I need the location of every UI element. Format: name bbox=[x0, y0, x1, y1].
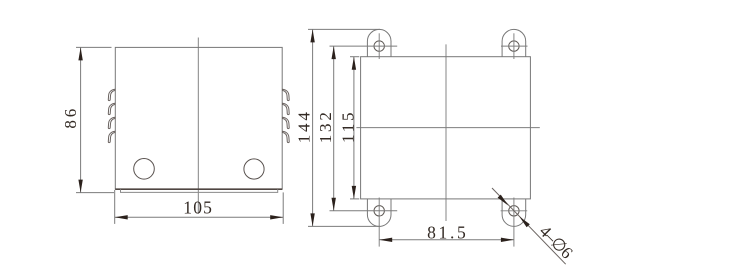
node louver R1 bbox=[283, 89, 290, 100]
enclosure body right view bbox=[361, 57, 531, 199]
node hole bottom-left bbox=[374, 206, 384, 216]
wire hole BR horizontal crosshair bbox=[501, 210, 528, 212]
wire hole BR vertical crosshair extended bbox=[513, 198, 515, 247]
node tab bottom-left bbox=[367, 199, 391, 227]
svg-text:132: 132 bbox=[316, 109, 335, 143]
arrow dim86 bottom bbox=[78, 180, 82, 193]
svg-text:115: 115 bbox=[339, 110, 358, 143]
wire dim86 extension top bbox=[76, 46, 112, 48]
arrow leader lower (points up-left at hole) bbox=[518, 215, 530, 227]
arrow dim132 bottom bbox=[332, 198, 336, 211]
svg-text:105: 105 bbox=[183, 197, 213, 217]
node tab bottom-right bbox=[502, 199, 526, 227]
arrow dim86 top bbox=[78, 47, 82, 60]
arrow dim115 bottom bbox=[352, 186, 356, 199]
wire dim115 line bbox=[353, 57, 355, 199]
node tab top-left bbox=[367, 29, 391, 56]
wire dim86 line bbox=[80, 47, 82, 192]
wire leader 4-d6 bbox=[492, 188, 566, 264]
wire hole TR horizontal crosshair bbox=[501, 45, 528, 47]
wire dim81.5 line bbox=[379, 239, 514, 241]
wire dim105 extension left bbox=[114, 190, 116, 224]
arrow dim105 right bbox=[270, 215, 283, 219]
wire bottom edge thick bbox=[115, 188, 282, 190]
node hole right circle bbox=[244, 159, 264, 179]
svg-text:144: 144 bbox=[295, 109, 314, 143]
svg-text:86: 86 bbox=[61, 106, 80, 129]
node hole bottom-right bbox=[509, 206, 519, 216]
wire hole BL vertical crosshair extended bbox=[378, 198, 380, 247]
node louver L1 bbox=[108, 89, 115, 100]
arrow leader upper (points down-right at hole) bbox=[498, 195, 510, 207]
wire dim144 extension bottom bbox=[308, 225, 380, 227]
svg-text:4–∅6: 4–∅6 bbox=[536, 222, 577, 263]
node louver R3 bbox=[283, 117, 290, 128]
node hole left circle bbox=[134, 159, 155, 180]
wire dim105 line bbox=[115, 216, 284, 218]
enclosure body left view bbox=[115, 47, 282, 189]
node louver L2 bbox=[108, 103, 115, 114]
node louver L3 bbox=[108, 117, 115, 128]
arrow dim144 bottom bbox=[310, 213, 314, 226]
node louver R2 bbox=[283, 103, 290, 114]
wire centerline vertical right view bbox=[445, 44, 447, 221]
svg-text:81.5: 81.5 bbox=[427, 223, 468, 243]
arrow dim115 top bbox=[352, 57, 356, 70]
arrow dim144 top bbox=[310, 29, 314, 42]
wire hole TR vertical crosshair bbox=[513, 33, 515, 59]
wire centerline horizontal right view bbox=[356, 127, 539, 129]
wire dim132 line bbox=[333, 46, 335, 211]
wire dim144 line bbox=[312, 29, 314, 226]
node hole top-left bbox=[374, 41, 384, 51]
node hole top-right bbox=[509, 41, 519, 51]
arrow dim81.5 left bbox=[379, 238, 392, 242]
wire dim132 extension top bbox=[330, 45, 398, 47]
arrow dim132 top bbox=[332, 46, 336, 59]
node louver L4 bbox=[108, 131, 115, 142]
wire centerline vertical left view bbox=[197, 38, 199, 214]
node tab top-right bbox=[502, 29, 526, 56]
wire dim115 extension top bbox=[350, 56, 359, 58]
arrow dim81.5 right bbox=[501, 238, 514, 242]
wire dim105 extension right bbox=[282, 192, 284, 224]
node louver R4 bbox=[283, 131, 290, 142]
wire dim86 extension bottom bbox=[76, 192, 114, 194]
wire dim144 extension top bbox=[308, 28, 380, 30]
wire dim115 extension bottom bbox=[350, 198, 359, 200]
wire dim132 extension bottom bbox=[330, 210, 398, 212]
wire hole TL vertical crosshair bbox=[378, 33, 380, 59]
arrow dim105 left bbox=[115, 215, 128, 219]
node base strip bbox=[121, 189, 278, 192]
